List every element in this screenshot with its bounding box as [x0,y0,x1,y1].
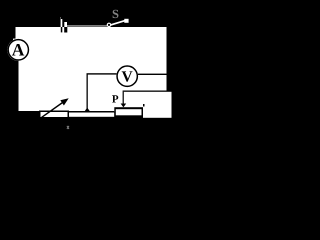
svg-text:P: P [112,93,119,105]
rheostat box outline [39,111,69,119]
switch S lever [111,20,126,25]
switch S pivot [107,23,110,26]
wire stub at resistor right terminal [143,104,145,107]
battery cell thin plate lower stub (black, below top edge) [61,27,63,32]
potentiometer slider arrowhead [121,104,127,108]
lamp mark x (faint, in margin) [67,126,69,129]
potentiometer slider arrow shaft [123,92,124,104]
wire voltmeter right [138,74,167,75]
rheostat wiper arrowhead [60,98,68,105]
junction blob at bottom wire [85,108,91,112]
battery cell thick plate (white, in margin) [64,22,67,27]
wire voltmeter left + down branch [87,73,117,74]
battery cell lower stub (black, below top edge) [64,27,67,33]
wire branch vertical [87,74,88,112]
svg-text:V: V [121,69,133,86]
svg-text:A: A [12,40,25,60]
rheostat box fill [41,112,68,117]
svg-text:S: S [112,7,119,21]
wire bottom (node B run) [13,111,114,113]
voltmeter V1 disc [116,65,138,87]
background canvas [0,0,185,145]
voltmeter V1 ring [117,66,137,86]
switch S blade tip [124,19,128,23]
resistor R box outline [114,107,143,117]
white strip below bottom wire [69,113,114,117]
ammeter A1 ring [8,40,28,60]
battery cell plate tip speck [60,17,61,20]
wire left stub from top edge [13,27,16,39]
wire potentiometer top run [123,91,167,92]
resistor R box fill [116,109,142,115]
white interior main area [13,27,167,112]
battery cell thin plate (white, in margin) [61,19,63,27]
ammeter A1 disc [7,39,29,61]
wire left run below ammeter [13,58,19,113]
rheostat wiper arrow shaft [41,102,65,119]
wire top (white, in margin) [67,25,107,27]
white right-bottom extension [143,92,172,118]
